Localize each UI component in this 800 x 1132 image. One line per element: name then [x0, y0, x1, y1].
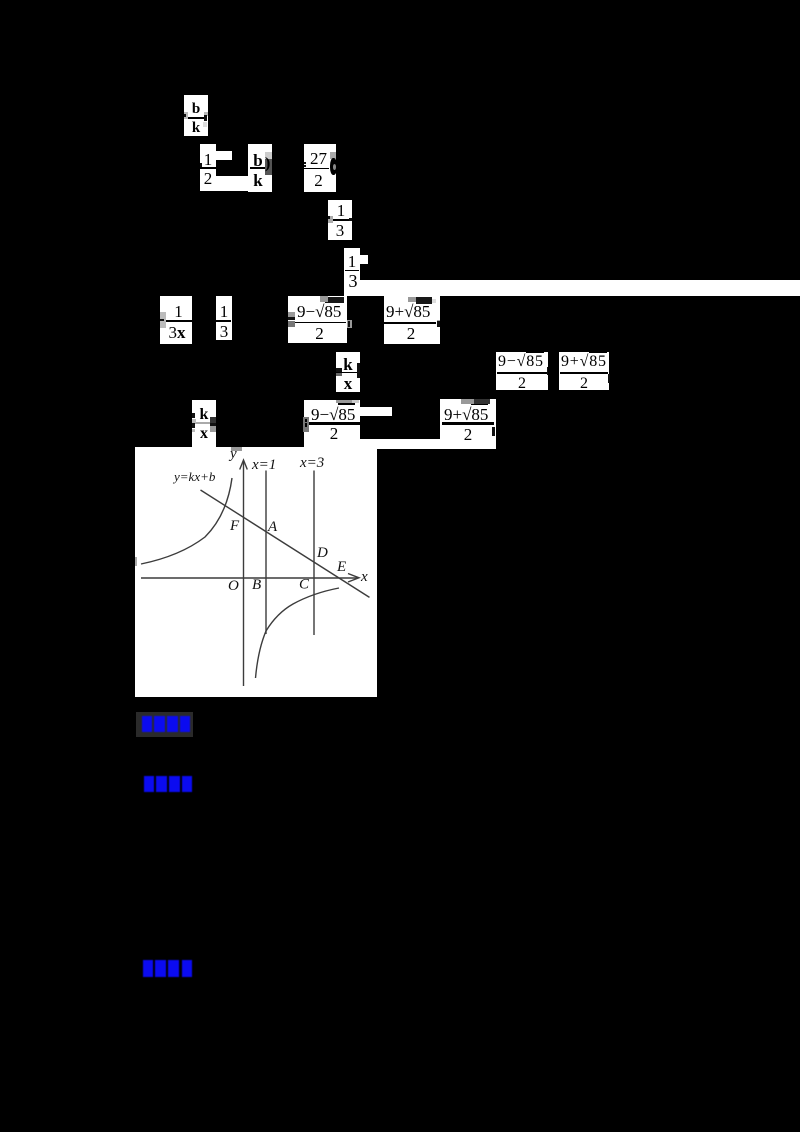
right hyperbola	[256, 588, 340, 678]
svg-text:F: F	[229, 518, 240, 534]
line x=3	[313, 471, 315, 636]
blue label 3	[143, 960, 192, 977]
svg-text:x: x	[360, 569, 368, 585]
bottom strip between 1/2 and b/k	[216, 176, 248, 191]
svg-text:y: y	[228, 447, 237, 462]
svg-text:x=3: x=3	[299, 455, 324, 471]
box b/k) row2	[248, 144, 272, 192]
line x=1	[265, 471, 267, 635]
full-width strip row4	[344, 280, 800, 296]
denominator 3 of row4	[349, 272, 358, 290]
y-axis	[243, 462, 245, 686]
box 1/2 row2	[200, 144, 216, 191]
x-axis	[141, 577, 357, 579]
line y=kx+b	[201, 490, 370, 597]
box 1/3 row4 column	[344, 248, 360, 281]
box (9-sqrt85)/2 row6 small	[496, 352, 548, 390]
svg-text:x=1: x=1	[251, 457, 276, 473]
box (9+sqrt85)/2 row5	[384, 296, 440, 344]
figure	[135, 447, 377, 697]
box k/x row7	[192, 400, 216, 448]
box 1/3 row3	[328, 200, 352, 240]
svg-text:O: O	[228, 578, 239, 594]
box k/x row6	[336, 352, 360, 392]
comma square of row5 left box	[347, 320, 352, 328]
svg-text:C: C	[299, 577, 310, 593]
blue label 2	[144, 776, 192, 792]
svg-text:y=kx+b: y=kx+b	[172, 469, 216, 484]
svg-text:A: A	[267, 519, 278, 535]
svg-text:D: D	[316, 545, 328, 561]
tab of 1/2	[216, 151, 232, 160]
strip between row7 boxes	[359, 439, 440, 449]
box 1/3 row5	[216, 296, 232, 340]
tab of 1/3 row4	[360, 255, 368, 264]
box b/k row1	[184, 95, 208, 136]
box (9-sqrt85)/2 row7	[304, 400, 360, 447]
box (9+sqrt85)/2 row7	[440, 399, 496, 449]
blue label 1 with gray bg	[136, 712, 193, 737]
svg-text:B: B	[252, 577, 261, 593]
tab right of row7 box	[359, 407, 392, 416]
box 1/3x row5	[160, 296, 192, 344]
box 27/2 row2	[304, 144, 336, 192]
left hyperbola	[141, 478, 232, 564]
svg-text:E: E	[336, 559, 346, 575]
box (9+sqrt85)/2 row6 small	[559, 352, 609, 390]
box (9-sqrt85)/2 row5	[288, 296, 347, 343]
